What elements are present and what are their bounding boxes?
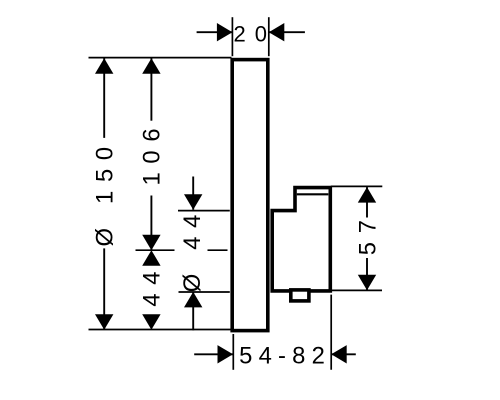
svg-text:Ø 150: Ø 150 <box>91 138 118 246</box>
dim 57 arrow top <box>358 187 376 203</box>
dim 44 left arrow bottom <box>142 314 160 330</box>
extension line dim54-82 left vertical <box>232 334 234 370</box>
dim 106 line top segment <box>150 58 152 120</box>
handle body with top step (side profile) <box>272 188 330 291</box>
dim 57 line bottom segment <box>366 258 368 290</box>
dim D150 arrow top <box>95 58 113 73</box>
dim 54-82 arrow right (points left) <box>331 345 347 363</box>
dim D44 line top segment <box>192 177 194 210</box>
extension line knob-top left <box>178 210 230 212</box>
dim 20 line right <box>269 31 305 33</box>
extension line plate-top left <box>89 57 232 59</box>
extension line knob-center right segment <box>208 249 228 251</box>
dim D150 line top segment <box>103 58 105 138</box>
extension line dim20 left vertical <box>231 17 233 56</box>
dim 54-82 line left <box>194 353 233 355</box>
dim 44 left arrow top (bowtie lower) <box>142 250 160 266</box>
svg-text:20: 20 <box>233 21 275 46</box>
extension line step-top right <box>331 185 383 187</box>
dim D44 line bottom segment <box>192 292 194 330</box>
dim D150 line bottom segment <box>103 248 105 329</box>
extension line knob-bottom left <box>179 291 230 293</box>
dim 20 line left <box>197 31 233 33</box>
extension line knob-center left segment <box>136 249 175 251</box>
svg-text:54-82: 54-82 <box>239 342 331 369</box>
dim 106 arrow top <box>142 58 160 73</box>
dim 20 arrow right <box>269 23 285 41</box>
svg-text:57: 57 <box>354 211 381 255</box>
dim 20 arrow left <box>217 23 233 41</box>
extension line plate-bottom left <box>89 329 232 331</box>
extension line dim20 right vertical <box>268 17 270 56</box>
dim 106 arrow bottom <box>142 235 160 251</box>
extension line knob-bottom right <box>332 289 382 291</box>
svg-text:106: 106 <box>139 120 166 186</box>
dim 57 line top segment <box>366 187 368 217</box>
svg-text:44: 44 <box>139 263 166 307</box>
dim D44 arrow bottom (points up) <box>184 292 202 308</box>
dim D44 arrow top (points down) <box>184 194 202 210</box>
svg-text:Ø 44: Ø 44 <box>179 206 206 292</box>
dim 57 arrow bottom <box>358 275 376 291</box>
extension line dim54-82 right vertical <box>330 295 332 370</box>
dim D150 arrow bottom <box>95 314 113 330</box>
wall plate (escutcheon) side profile <box>232 60 268 331</box>
dim 106 line bottom segment <box>150 196 152 251</box>
dim 54-82 arrow left (points right) <box>218 345 234 363</box>
handle bottom tab <box>291 290 309 301</box>
dim 54-82 line right <box>331 353 356 355</box>
handle step inner line <box>297 193 329 195</box>
